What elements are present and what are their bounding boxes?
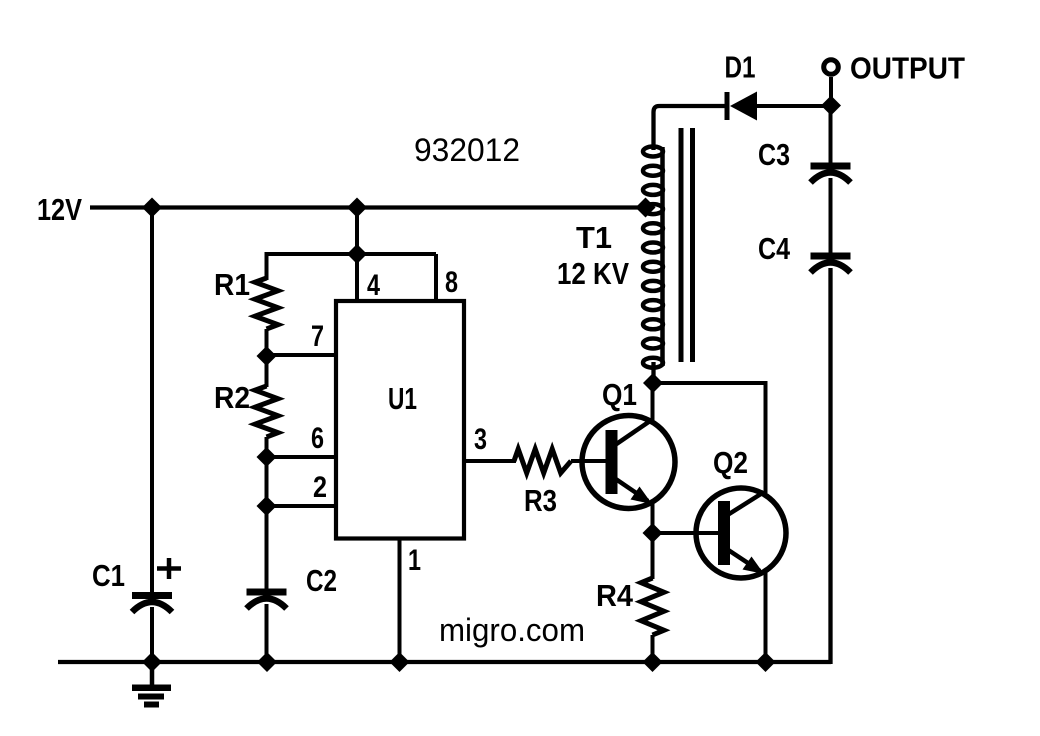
resistor R2 bbox=[214, 380, 278, 437]
svg-text:12 KV: 12 KV bbox=[557, 256, 629, 291]
transistor Q2 bbox=[696, 445, 786, 578]
wire pin 3 lead bbox=[464, 459, 516, 463]
wire output node to C3 bbox=[829, 106, 833, 164]
svg-text:C2: C2 bbox=[306, 563, 337, 598]
wire junction to Q2 collector bbox=[653, 383, 766, 493]
wire C1 to ground rail bbox=[150, 607, 154, 662]
pin 8 label bbox=[445, 266, 458, 299]
wire Q2 emitter lead bbox=[764, 572, 768, 662]
transformer T1 primary top lead bbox=[654, 106, 728, 150]
wire 12V rail bbox=[90, 205, 648, 209]
svg-text:C1: C1 bbox=[92, 558, 125, 593]
junction C1 column / 12V rail bbox=[142, 198, 162, 218]
wire Q1 emitter lead bbox=[651, 502, 655, 534]
wire pin7 node to R2 bbox=[265, 356, 269, 387]
resistor R4 bbox=[596, 578, 664, 635]
pin 6 label bbox=[311, 422, 324, 455]
wire R4 to ground rail bbox=[651, 635, 655, 662]
wire pin 7 lead bbox=[267, 353, 339, 357]
junction supply bus bbox=[347, 244, 367, 264]
node 12V label bbox=[37, 192, 82, 227]
wire pin 4 lead bbox=[355, 254, 359, 302]
resistor R3 bbox=[514, 449, 571, 518]
pin 1 label bbox=[408, 544, 421, 577]
pin 2 label bbox=[313, 471, 327, 504]
svg-text:12V: 12V bbox=[37, 192, 82, 227]
transformer T1 label bbox=[576, 220, 612, 255]
transformer 12 KV label bbox=[557, 256, 629, 291]
svg-text:Q1: Q1 bbox=[602, 377, 637, 412]
svg-text:C4: C4 bbox=[758, 231, 791, 266]
junction C2 / ground rail bbox=[257, 652, 277, 672]
wire junction to R4 bbox=[651, 533, 655, 579]
svg-text:7: 7 bbox=[311, 320, 324, 353]
svg-text:migro.com: migro.com bbox=[439, 612, 585, 648]
svg-text:1: 1 bbox=[408, 544, 421, 577]
ground bbox=[132, 662, 171, 708]
svg-text:8: 8 bbox=[445, 266, 458, 299]
junction pin 2 node bbox=[257, 496, 277, 516]
wire pin 6 lead bbox=[267, 455, 339, 459]
svg-text:R4: R4 bbox=[596, 578, 634, 613]
wire Q2 base lead bbox=[653, 531, 720, 535]
transformer T1 core bbox=[679, 128, 696, 362]
wire Q1 collector lead bbox=[651, 383, 655, 421]
resistor R1 bbox=[214, 267, 278, 329]
wire R3 to Q1 base bbox=[571, 459, 607, 463]
wire supply bus R1 to pin8 bbox=[267, 254, 437, 280]
junction Q1 emitter / Q2 base / R4 bbox=[643, 523, 663, 543]
wire C1 column bbox=[150, 208, 154, 593]
capacitor C4 bbox=[758, 231, 851, 273]
junction 12V rail / T1 tap bbox=[636, 198, 656, 218]
pin 7 label bbox=[311, 320, 324, 353]
wire pin 8 lead bbox=[434, 254, 438, 302]
junction 12V rail / U1 supply bbox=[347, 198, 367, 218]
svg-text:Q2: Q2 bbox=[713, 445, 748, 480]
wire C3 to C4 bbox=[829, 178, 833, 253]
svg-text:R3: R3 bbox=[524, 483, 557, 518]
svg-text:D1: D1 bbox=[725, 50, 756, 85]
transformer T1 winding bbox=[643, 147, 663, 368]
junction R4 / ground rail bbox=[643, 652, 663, 672]
pin 3 label bbox=[474, 423, 487, 456]
wire pin6 node to pin2 node bbox=[265, 457, 269, 506]
diode D1 bbox=[725, 50, 758, 121]
junction output node bbox=[821, 96, 841, 116]
wire R2 to pin6 node bbox=[265, 437, 269, 458]
svg-text:R1: R1 bbox=[214, 267, 250, 302]
svg-text:OUTPUT: OUTPUT bbox=[850, 51, 965, 86]
wire C2 to ground rail bbox=[265, 604, 269, 662]
junction pin 7 node bbox=[257, 346, 277, 366]
capacitor C2 bbox=[247, 563, 338, 609]
svg-text:C3: C3 bbox=[758, 137, 790, 172]
pin 4 label bbox=[367, 269, 380, 302]
node C1 plus sign bbox=[157, 558, 181, 579]
node migro.com label bbox=[439, 612, 585, 648]
transformer T1 bottom lead bbox=[651, 362, 655, 383]
svg-text:2: 2 bbox=[313, 471, 327, 504]
wire D1 to output node bbox=[757, 104, 831, 108]
capacitor C1 bbox=[92, 558, 172, 612]
junction pin1 / ground rail bbox=[390, 652, 410, 672]
svg-text:3: 3 bbox=[474, 423, 487, 456]
svg-text:932012: 932012 bbox=[414, 132, 520, 168]
wire pin2 node to C2 bbox=[265, 506, 269, 590]
svg-text:R2: R2 bbox=[214, 380, 250, 415]
junction Q2 emitter / ground rail bbox=[756, 652, 776, 672]
junction C1 / ground rail bbox=[142, 652, 162, 672]
op-amp U1 box bbox=[336, 301, 464, 539]
transistor Q1 bbox=[582, 377, 675, 509]
svg-text:U1: U1 bbox=[388, 381, 417, 416]
wire supply drop bbox=[355, 206, 359, 254]
node 932012 label bbox=[414, 132, 520, 168]
wire R1 to pin7 node bbox=[265, 329, 269, 357]
wire ground rail bbox=[58, 660, 831, 664]
wire C4 to ground rail bbox=[828, 268, 832, 664]
node OUTPUT terminal bbox=[824, 51, 965, 108]
wire pin 1 lead bbox=[398, 539, 402, 663]
junction pin 6 node bbox=[257, 447, 277, 467]
svg-text:6: 6 bbox=[311, 422, 324, 455]
svg-text:T1: T1 bbox=[576, 220, 612, 255]
svg-text:4: 4 bbox=[367, 269, 380, 302]
junction T1 / Q1 collector bbox=[643, 373, 663, 393]
wire pin 2 lead bbox=[267, 504, 339, 508]
capacitor C3 bbox=[758, 137, 851, 183]
